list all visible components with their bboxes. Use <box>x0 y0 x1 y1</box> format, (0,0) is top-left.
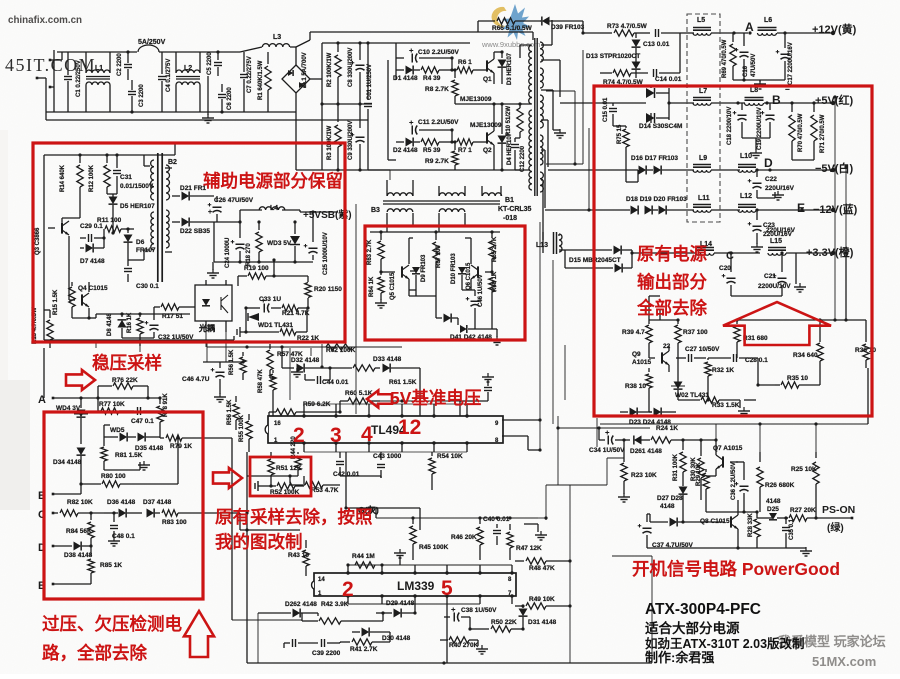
capacitor opto side <box>240 331 246 333</box>
svg-text:D33 4148: D33 4148 <box>373 356 402 363</box>
wire opto pins down <box>205 330 207 347</box>
svg-text:D39 FR103: D39 FR103 <box>551 24 585 31</box>
red up arrow detection <box>184 611 214 657</box>
svg-text:R31 680: R31 680 <box>743 335 768 342</box>
svg-text:R37 100: R37 100 <box>683 329 708 336</box>
svg-text:D25: D25 <box>767 506 779 513</box>
wire vertical x570 mid segment <box>569 561 571 606</box>
wire lower buses <box>246 452 248 663</box>
svg-text:路，全部去除: 路，全部去除 <box>42 643 147 663</box>
wire box2 bottom to C34 bus <box>557 416 559 428</box>
svg-text:+: + <box>208 209 212 216</box>
svg-text:C30 0.1: C30 0.1 <box>136 283 159 290</box>
svg-text:220U/16V: 220U/16V <box>766 227 796 234</box>
ground R64 <box>380 299 382 303</box>
svg-text:D: D <box>764 156 773 170</box>
svg-text:LM339: LM339 <box>397 579 435 593</box>
wire R62 rail left reach <box>207 346 247 348</box>
wire LM339 top bus <box>348 564 512 566</box>
svg-text:Q4 C1015: Q4 C1015 <box>78 285 108 292</box>
svg-text:R81 1.5K: R81 1.5K <box>115 452 143 459</box>
ground -12V <box>756 242 758 244</box>
ground R81 <box>104 469 140 471</box>
wire R23 left feed <box>546 484 607 486</box>
svg-text:C5 2200: C5 2200 <box>207 52 213 75</box>
svg-text:C46 4.7U: C46 4.7U <box>182 376 210 383</box>
svg-text:D6: D6 <box>136 239 145 246</box>
svg-text:R46 20K: R46 20K <box>451 534 477 541</box>
svg-text:R27 20K: R27 20K <box>790 507 816 514</box>
svg-text:C48 0.1: C48 0.1 <box>112 533 135 540</box>
svg-text:R14 640K: R14 640K <box>60 164 66 192</box>
terminal PS-ON <box>851 517 854 520</box>
wire switcher frame <box>395 43 397 80</box>
wire TL494 pin stubs bottom <box>303 443 305 452</box>
svg-text:D22 SB35: D22 SB35 <box>180 228 210 235</box>
ground 3.3V <box>731 295 782 297</box>
svg-text:47U/50V: 47U/50V <box>751 54 757 77</box>
wire TL494 pin9 to bus <box>502 419 540 421</box>
svg-text:+12V(黄): +12V(黄) <box>812 22 857 36</box>
svg-text:R66 5.1/0.5W: R66 5.1/0.5W <box>492 25 533 32</box>
svg-text:D27 D28: D27 D28 <box>657 495 683 502</box>
svg-text:D4 HER107: D4 HER107 <box>507 132 513 165</box>
wire aux top rail <box>44 154 150 156</box>
svg-text:+5V(红): +5V(红) <box>815 93 854 107</box>
svg-text:4: 4 <box>361 423 373 446</box>
wire 5Vref to pin <box>380 400 460 402</box>
ground C44 <box>304 374 306 380</box>
svg-text:D29 4148: D29 4148 <box>386 600 415 607</box>
svg-text:R75 15: R75 15 <box>617 124 623 144</box>
svg-text:R58 47K: R58 47K <box>258 369 264 393</box>
svg-text:C1 0.22/250V: C1 0.22/250V <box>76 60 82 97</box>
node B terminal <box>52 493 55 496</box>
svg-text:(绿): (绿) <box>827 521 844 534</box>
node D terminal <box>52 545 55 548</box>
svg-text:Q1: Q1 <box>483 76 492 83</box>
diode D28b <box>650 521 668 523</box>
wire mid junction <box>322 103 372 105</box>
terminal -12V <box>831 208 835 212</box>
ground drive stage <box>492 328 497 330</box>
svg-text:R15 1.5K: R15 1.5K <box>53 289 59 315</box>
wire LM339 bottom bus <box>348 603 480 605</box>
svg-text:L15: L15 <box>770 238 782 245</box>
svg-text:L3: L3 <box>273 34 281 41</box>
svg-text:C29 0.1: C29 0.1 <box>80 223 103 230</box>
svg-text:R64 1K: R64 1K <box>369 276 375 297</box>
svg-text:-018: -018 <box>503 215 517 222</box>
svg-text:R6 1: R6 1 <box>458 59 472 66</box>
svg-text:D9 FR103: D9 FR103 <box>421 254 427 282</box>
svg-text:R83 100: R83 100 <box>162 519 187 526</box>
svg-text:R80 100: R80 100 <box>101 473 126 480</box>
wire Q1 emitter rail <box>455 103 516 105</box>
dashed box output chokes <box>687 14 720 222</box>
wire vertical B3 left <box>355 204 357 414</box>
svg-text:C47 0.1: C47 0.1 <box>131 418 154 425</box>
svg-text:D262 4148: D262 4148 <box>285 601 317 608</box>
svg-text:A1015: A1015 <box>632 359 652 366</box>
red box drive stage <box>365 226 525 340</box>
svg-text:A: A <box>38 394 46 406</box>
svg-text:R20 1150: R20 1150 <box>314 286 342 293</box>
capacitor C1 0.22/250V <box>67 52 69 75</box>
svg-text:开机信号电路 PowerGood: 开机信号电路 PowerGood <box>632 559 840 579</box>
svg-text:ATX-300P4-PFC: ATX-300P4-PFC <box>645 601 761 618</box>
opto coupler <box>195 285 232 321</box>
svg-text:R29 10K: R29 10K <box>696 462 702 486</box>
svg-text:稳压采样: 稳压采样 <box>92 353 162 373</box>
svg-text:D31 4148: D31 4148 <box>528 619 557 626</box>
ground near R47 <box>537 524 539 532</box>
svg-text:D13 STPR1020CT: D13 STPR1020CT <box>586 53 640 60</box>
svg-text:我的图改制: 我的图改制 <box>215 532 303 552</box>
svg-text:R54 10K: R54 10K <box>437 453 463 460</box>
svg-text:5: 5 <box>441 577 453 600</box>
svg-text:B: B <box>772 93 781 107</box>
svg-text:D30 4148: D30 4148 <box>382 635 411 642</box>
wire sense bus to x546 <box>538 517 546 519</box>
red box detection remove <box>44 412 203 599</box>
svg-text:E: E <box>797 201 805 215</box>
svg-text:Q2: Q2 <box>483 147 492 154</box>
svg-text:KT-CRL35: KT-CRL35 <box>498 206 532 213</box>
red box aux supply keep <box>33 143 345 342</box>
wire plug lower line <box>46 119 368 121</box>
svg-text:C13 0.01: C13 0.01 <box>643 41 670 48</box>
svg-text:C8 330U/200V: C8 330U/200V <box>348 48 354 87</box>
svg-text:C36 2.2U/50V: C36 2.2U/50V <box>731 462 737 500</box>
svg-text:R4 39: R4 39 <box>423 75 441 82</box>
svg-text:C25 1000U/10V: C25 1000U/10V <box>323 232 329 275</box>
svg-text:R61 1.5K: R61 1.5K <box>389 379 417 386</box>
wire TL494 pin stubs top <box>303 404 305 416</box>
wire LM339 right to PG <box>651 575 653 663</box>
svg-text:R1 640K/1.5W: R1 640K/1.5W <box>258 60 264 100</box>
wire TL494 pin8 to bus <box>502 435 528 437</box>
svg-text:R24 1K: R24 1K <box>656 425 678 432</box>
svg-text:C33 1U: C33 1U <box>259 296 281 303</box>
wire aux emitter rail <box>89 317 96 319</box>
svg-text:FR107: FR107 <box>136 247 156 254</box>
ground R23 <box>623 493 625 497</box>
svg-text:R2 100K/1W: R2 100K/1W <box>327 52 333 87</box>
wire PG rails <box>611 451 613 453</box>
terminal +12V <box>831 31 835 35</box>
svg-text:R59 6.2K: R59 6.2K <box>303 401 331 408</box>
svg-text:22: 22 <box>663 343 671 350</box>
svg-text:C24 1000U: C24 1000U <box>225 238 231 268</box>
transformer B1 KT-CRL35-018 <box>529 45 532 104</box>
svg-text:C39 2200: C39 2200 <box>312 650 341 657</box>
wire 3V3 sense top <box>649 319 678 321</box>
svg-text:WD3 5V: WD3 5V <box>267 240 292 247</box>
svg-text:C14 0.01: C14 0.01 <box>655 76 682 83</box>
svg-text:R73 4.7/0.5W: R73 4.7/0.5W <box>607 23 648 30</box>
svg-text:全部去除: 全部去除 <box>636 298 707 318</box>
terminal +3.3V <box>831 251 835 255</box>
svg-text:R16 1K: R16 1K <box>127 312 133 333</box>
wire A rail <box>53 397 160 399</box>
svg-text:C10 2.2U/50V: C10 2.2U/50V <box>418 49 459 56</box>
node C terminal <box>52 512 55 515</box>
wire bottom rail AC <box>46 111 296 113</box>
AC plug <box>49 59 52 62</box>
svg-text:R12 100K: R12 100K <box>89 164 95 192</box>
svg-text:PS-ON: PS-ON <box>822 504 855 516</box>
svg-text:R35 10: R35 10 <box>787 375 808 382</box>
svg-text:R49 10K: R49 10K <box>529 596 555 603</box>
svg-text:D34 4148: D34 4148 <box>53 459 82 466</box>
wire TL494 top bus <box>304 403 467 405</box>
svg-text:R41 2.7K: R41 2.7K <box>350 646 378 653</box>
svg-text:B2: B2 <box>168 159 177 166</box>
wire right vertical bus x835 <box>834 97 836 320</box>
svg-text:L6: L6 <box>764 17 772 24</box>
wire tl494 left feeds <box>203 361 220 363</box>
terminal -5V <box>831 168 835 172</box>
svg-text:D1 4148: D1 4148 <box>393 75 418 82</box>
svg-text:chinafix.com.cn: chinafix.com.cn <box>8 15 82 26</box>
svg-text:R44 1M: R44 1M <box>352 553 375 560</box>
ground 5V filter <box>742 137 770 139</box>
svg-text:R50 22K: R50 22K <box>491 619 517 626</box>
svg-text:14: 14 <box>318 577 325 583</box>
svg-text:R39 4.7: R39 4.7 <box>622 329 645 336</box>
svg-text:原有电源: 原有电源 <box>637 244 707 264</box>
red up arrow output section <box>723 302 831 345</box>
svg-text:C18 2200/10V: C18 2200/10V <box>727 107 733 145</box>
ground C46 <box>219 390 221 394</box>
wire primary bottom to B3 <box>389 170 391 180</box>
svg-text:R82 10K: R82 10K <box>67 499 93 506</box>
wire top rail AC <box>57 51 137 53</box>
wire box1 to TL494 verticals <box>43 348 45 398</box>
svg-text:R32 1K: R32 1K <box>712 367 734 374</box>
svg-text:B1: B1 <box>505 197 514 204</box>
terminal +5V <box>831 101 835 105</box>
svg-text:R47 12K: R47 12K <box>516 545 542 552</box>
wire secondary verticals <box>541 44 552 46</box>
svg-text:2: 2 <box>342 578 354 601</box>
svg-text:−5V(白): −5V(白) <box>815 161 854 175</box>
wire B1 tap y164 <box>546 163 583 165</box>
wire feeds from detection <box>203 437 232 439</box>
wire B1 tap y91 <box>546 90 575 92</box>
svg-text:220U/16V: 220U/16V <box>765 185 795 192</box>
svg-text:L10: L10 <box>740 153 752 160</box>
svg-text:D261 4148: D261 4148 <box>630 448 662 455</box>
IC U1 TL494 <box>268 416 503 443</box>
svg-text:MJE13009: MJE13009 <box>470 122 502 129</box>
svg-text:Q7 A1015: Q7 A1015 <box>713 445 743 452</box>
svg-text:D37 4148: D37 4148 <box>143 499 172 506</box>
svg-text:0.01/1500V: 0.01/1500V <box>120 183 154 190</box>
svg-text:R26 680K: R26 680K <box>765 482 795 489</box>
logo 9xubbs <box>492 4 530 40</box>
svg-text:如劲王ATX-310T 2.03版改制: 如劲王ATX-310T 2.03版改制 <box>645 636 805 651</box>
svg-text:D18 D19 D20 FR103: D18 D19 D20 FR103 <box>626 196 687 203</box>
svg-text:R76 22K: R76 22K <box>112 377 138 384</box>
svg-text:5V基准电压: 5V基准电压 <box>390 388 482 408</box>
red arrow regulation sampling <box>66 370 95 390</box>
svg-text:C11 2.2U/50V: C11 2.2U/50V <box>418 119 459 126</box>
svg-text:R23 10K: R23 10K <box>631 472 657 479</box>
wire primary top rail <box>296 40 310 47</box>
wire sense bus y518 <box>376 517 538 519</box>
svg-text:ZL1 5A/700V: ZL1 5A/700V <box>302 52 308 88</box>
svg-text:D32 4148: D32 4148 <box>291 357 320 364</box>
wire TL494 bottom bus <box>304 451 467 453</box>
svg-text:2200U/10V: 2200U/10V <box>758 283 791 290</box>
svg-text:WD5: WD5 <box>110 427 125 434</box>
svg-text:B3: B3 <box>371 207 380 214</box>
svg-text:原有采样去除，按照: 原有采样去除，按照 <box>215 507 373 527</box>
wire aux bottom vertical x207 <box>206 342 208 362</box>
svg-text:R55 100K: R55 100K <box>239 414 245 442</box>
svg-text:R19 100: R19 100 <box>244 265 269 272</box>
svg-text:MJE13009: MJE13009 <box>460 96 492 103</box>
wire B1 tap vertical x589 <box>588 128 590 210</box>
svg-text:D38 4148: D38 4148 <box>64 552 93 559</box>
svg-text:制作:余君强: 制作:余君强 <box>645 650 714 665</box>
svg-text:D16 D17 FR103: D16 D17 FR103 <box>631 155 678 162</box>
svg-text:R5 39: R5 39 <box>423 147 441 154</box>
ground 3V3 reg <box>739 400 741 408</box>
ground PowerGood <box>757 547 786 549</box>
svg-text:R79 1K: R79 1K <box>170 443 192 450</box>
svg-text:W02 TL431: W02 TL431 <box>675 392 709 399</box>
svg-text:R10 51/2W: R10 51/2W <box>506 106 512 136</box>
ground secondary center tap <box>553 129 560 131</box>
svg-text:2: 2 <box>293 424 305 447</box>
svg-text:L9: L9 <box>699 155 707 162</box>
wire aux to TL494 verticals <box>289 348 291 400</box>
wire box1 bottom stubs <box>95 342 97 348</box>
svg-text:辅助电源部分保留: 辅助电源部分保留 <box>203 171 343 191</box>
svg-text:R9 2.7K: R9 2.7K <box>425 158 449 165</box>
wire verticals mid <box>539 222 541 450</box>
svg-text:C4 0.1/275V: C4 0.1/275V <box>166 59 172 92</box>
wire 3V3 reg rails <box>648 296 650 320</box>
svg-text:C35 0.1: C35 0.1 <box>789 518 795 540</box>
red arrow sampling <box>213 468 242 488</box>
ground R40 <box>477 640 479 646</box>
svg-text:C9 330U/200V: C9 330U/200V <box>348 121 354 160</box>
bridge rectifier ZL1 5A/700V <box>282 65 310 93</box>
svg-text:R42 3.9K: R42 3.9K <box>321 601 349 608</box>
wire R62 rail <box>247 346 402 348</box>
svg-text:L7: L7 <box>699 88 707 95</box>
wire drive stage top rail <box>370 231 500 233</box>
IC U2 LM339 <box>314 573 516 596</box>
svg-text:51MX.com: 51MX.com <box>812 654 876 669</box>
svg-text:C26 47U/50V: C26 47U/50V <box>214 197 254 204</box>
svg-text:R77 10K: R77 10K <box>99 401 125 408</box>
svg-text:4148: 4148 <box>660 503 675 510</box>
svg-text:D10 FR103: D10 FR103 <box>451 253 457 284</box>
svg-text:R8 2.7K: R8 2.7K <box>425 86 449 93</box>
svg-text:R17 51: R17 51 <box>162 313 183 320</box>
svg-text:D35 4148: D35 4148 <box>135 445 164 452</box>
svg-text:Q5 C1015: Q5 C1015 <box>390 272 396 300</box>
wire primary mid rail <box>310 78 322 80</box>
svg-text:R60 5.1K: R60 5.1K <box>345 390 373 397</box>
node E terminal <box>52 583 55 586</box>
svg-text:C15 0.01: C15 0.01 <box>603 97 609 122</box>
svg-text:R56 1.5K: R56 1.5K <box>227 399 233 425</box>
svg-text:C6 2200: C6 2200 <box>227 87 233 110</box>
svg-text:适合大部分电源: 适合大部分电源 <box>645 620 740 636</box>
svg-text:R51 12K: R51 12K <box>276 465 302 472</box>
node A terminal <box>52 397 55 400</box>
svg-text:C12 2200: C12 2200 <box>520 145 526 172</box>
ground AC filter <box>207 76 209 115</box>
svg-text:C31: C31 <box>120 174 132 181</box>
svg-text:R28 33K: R28 33K <box>748 513 754 537</box>
svg-text:D5 HER107: D5 HER107 <box>120 203 155 210</box>
red box sampling R51 R52 <box>250 457 311 496</box>
svg-text:D14 S30SC4M: D14 S30SC4M <box>639 123 682 130</box>
ground R52 <box>258 485 262 487</box>
wire left feeds LM339 <box>246 529 248 531</box>
svg-text:D36 4148: D36 4148 <box>107 499 136 506</box>
svg-text:45IT.COM: 45IT.COM <box>5 55 96 75</box>
red box output section remove <box>594 86 872 416</box>
wire right vertical bus x846b <box>845 167 847 253</box>
wire primary bottom rail <box>295 112 297 170</box>
svg-text:输出部分: 输出部分 <box>637 272 707 292</box>
svg-text:L13: L13 <box>536 242 548 249</box>
svg-text:D8 4148: D8 4148 <box>107 313 113 336</box>
svg-text:L8: L8 <box>750 87 758 94</box>
svg-text:R7 1: R7 1 <box>458 147 472 154</box>
svg-text:光耦: 光耦 <box>198 323 215 333</box>
svg-text:C3 2200: C3 2200 <box>139 84 145 107</box>
ground C48 <box>113 537 115 541</box>
svg-text:C20: C20 <box>719 265 731 272</box>
svg-text:D2 4148: D2 4148 <box>393 147 418 154</box>
svg-text:C38 1U/50V: C38 1U/50V <box>461 607 497 614</box>
capacitor C45 ref <box>487 392 489 401</box>
svg-text:R69 470/0.5W: R69 470/0.5W <box>722 39 728 78</box>
svg-text:C17 2200U/16V: C17 2200U/16V <box>788 42 794 85</box>
svg-text:WD1 TL431: WD1 TL431 <box>258 322 293 329</box>
red arrow 5V reference <box>367 391 392 408</box>
svg-text:R11 100: R11 100 <box>97 217 122 224</box>
wire drive to B3 <box>386 213 388 232</box>
wire aux bottom rail <box>44 339 234 341</box>
ground aux 5VSB <box>214 261 313 263</box>
svg-text:C43 1000: C43 1000 <box>373 453 402 460</box>
svg-text:R33 1.5K: R33 1.5K <box>712 402 740 409</box>
svg-text:R70 470/0.5W: R70 470/0.5W <box>798 113 804 152</box>
svg-text:16: 16 <box>274 421 281 427</box>
svg-text:R31 100K: R31 100K <box>673 453 679 481</box>
svg-text:D3 HER107: D3 HER107 <box>507 52 513 85</box>
svg-text:C22: C22 <box>765 176 777 183</box>
ground -5V <box>757 197 775 199</box>
svg-text:R34 640: R34 640 <box>793 352 818 359</box>
wire LM339 pin stubs <box>347 565 349 573</box>
svg-text:R38 10: R38 10 <box>625 383 646 390</box>
svg-text:C2 2200: C2 2200 <box>117 53 123 76</box>
wire B1 tap vertical x583 <box>582 50 584 164</box>
svg-text:C34 1U/50V: C34 1U/50V <box>589 447 625 454</box>
wire bottom bus <box>247 662 652 664</box>
